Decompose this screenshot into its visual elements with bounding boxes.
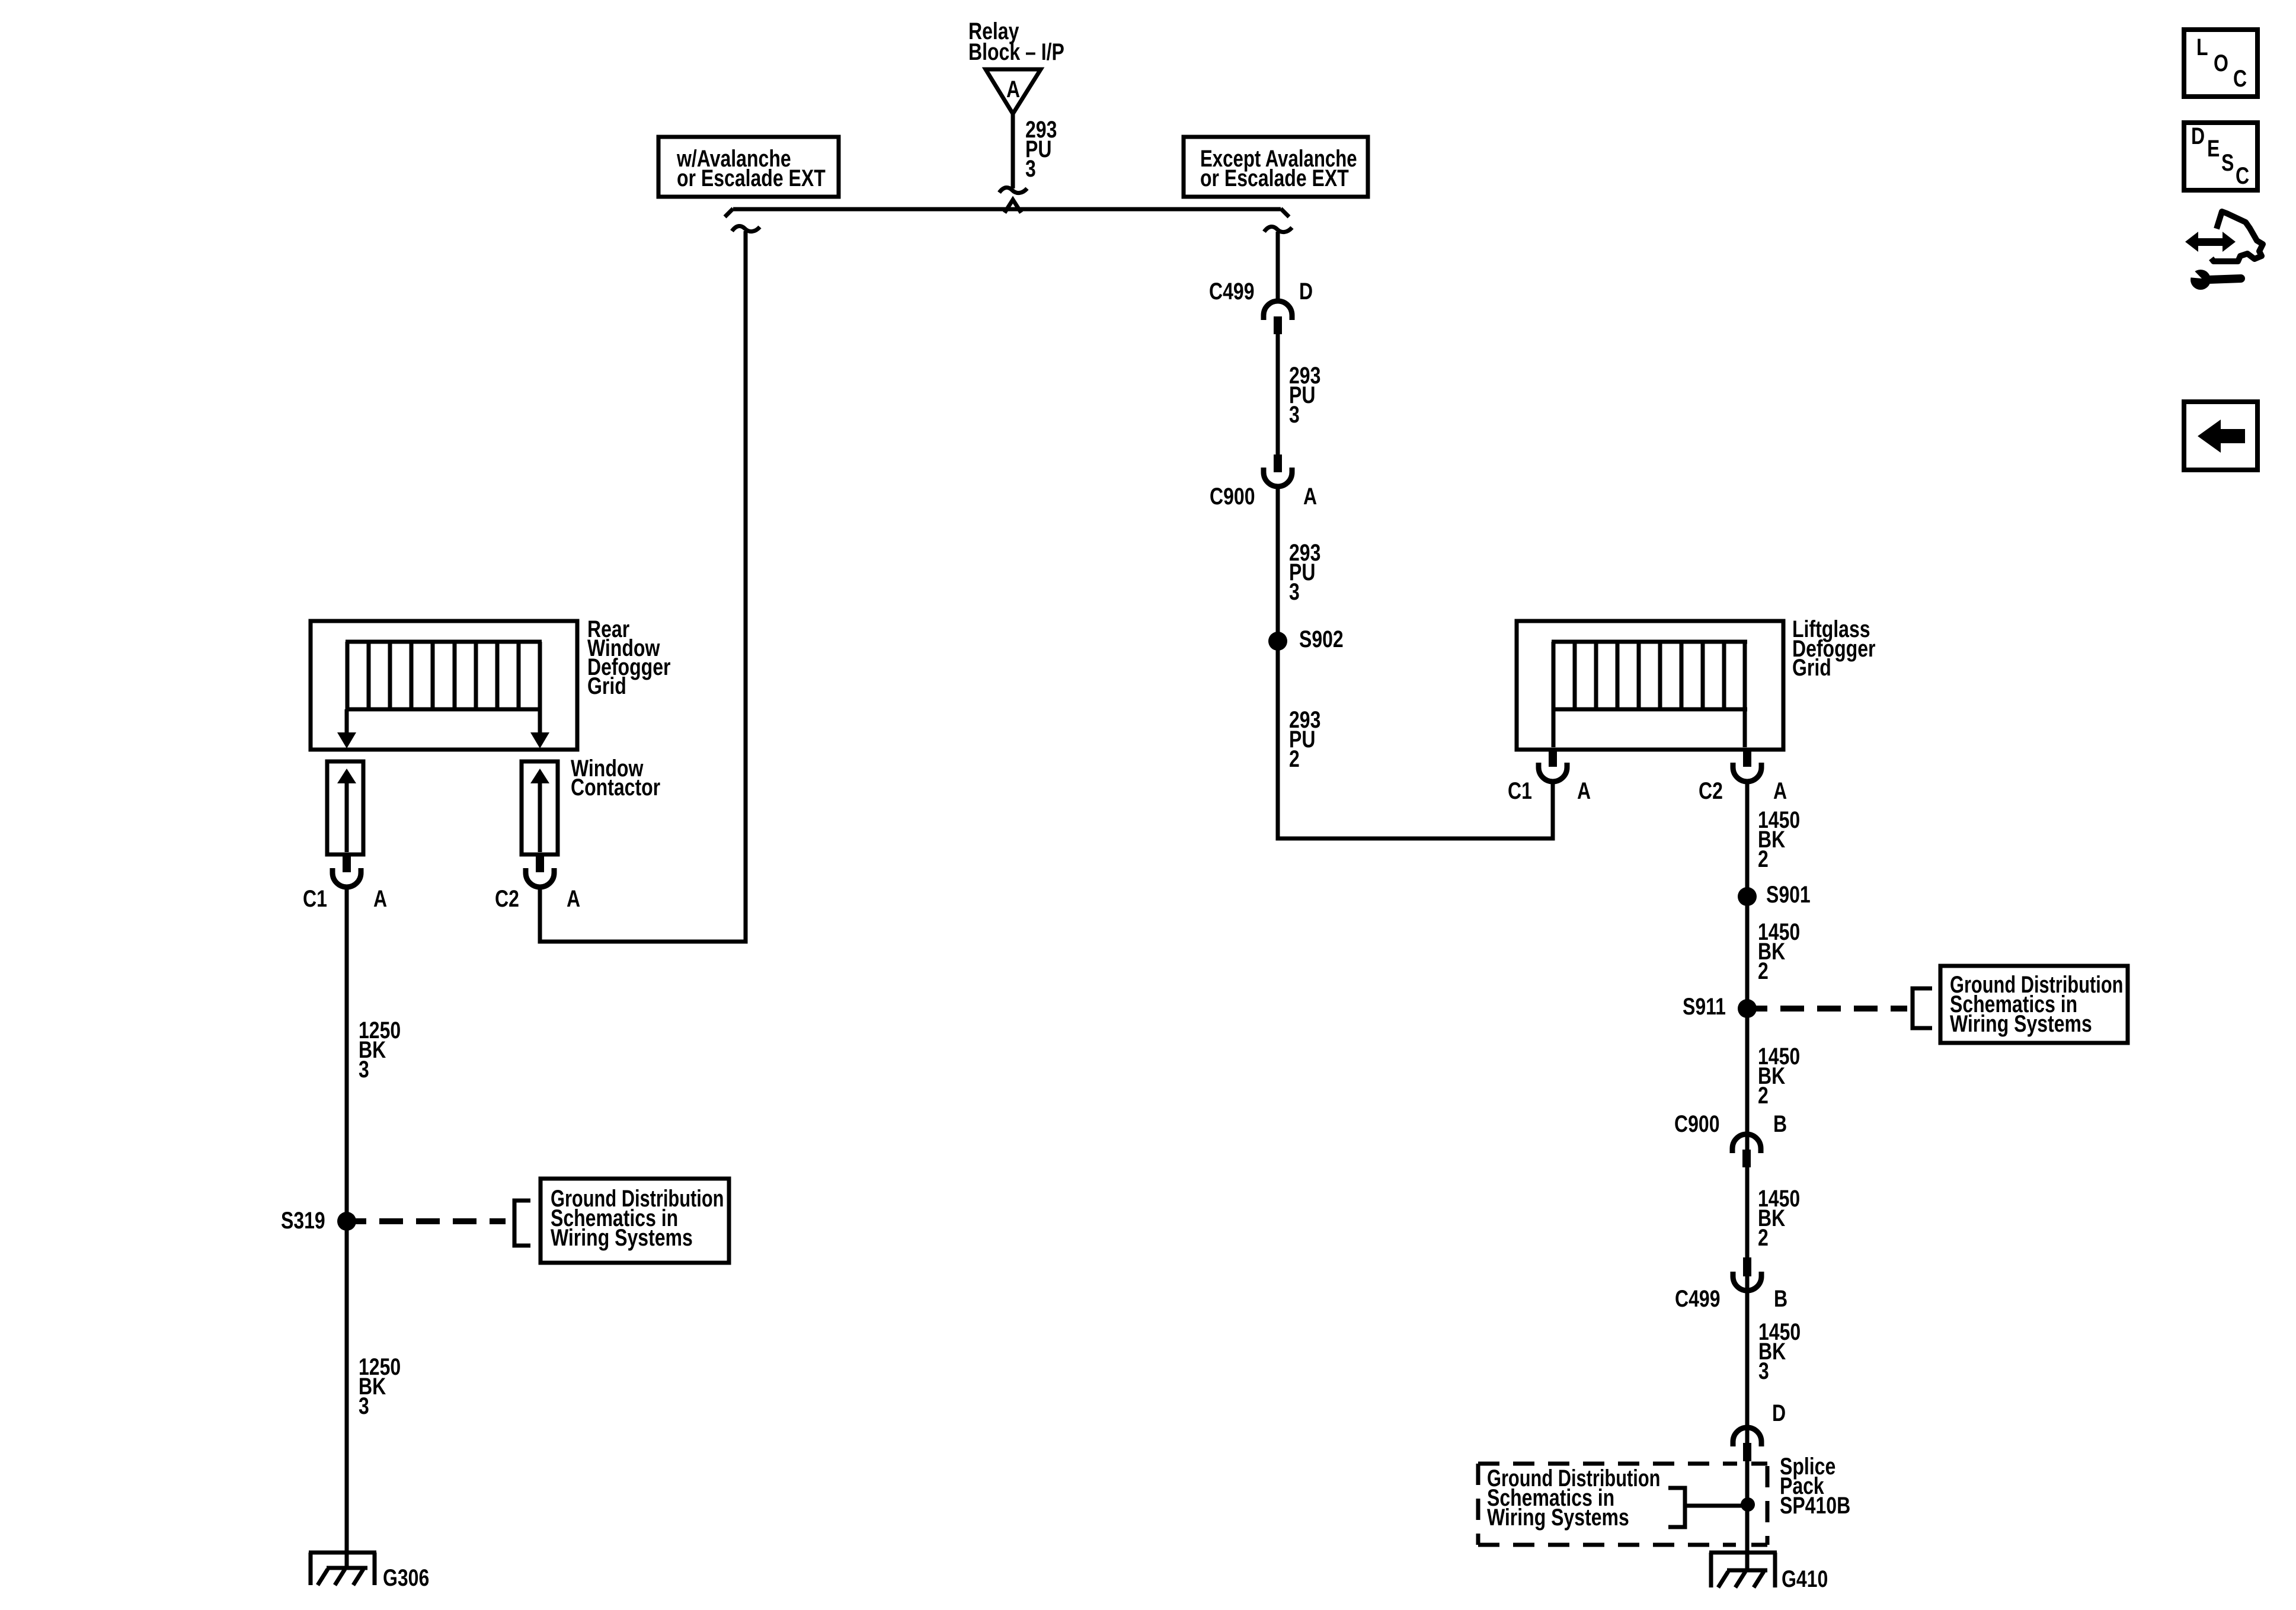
break tilde at relay wire xyxy=(999,187,1027,193)
svg-text:3: 3 xyxy=(1289,578,1300,605)
wire label 1250 BK 3 (upper) xyxy=(359,1017,401,1083)
grid output arrow left xyxy=(337,709,356,748)
svg-text:S319: S319 xyxy=(281,1207,325,1234)
rear window defogger grid box xyxy=(311,621,577,750)
connector C499 D xyxy=(1209,278,1313,334)
connector C1 A (rear grid) xyxy=(303,854,387,912)
splice pack dashed box xyxy=(1478,1464,1767,1545)
wire C900 to liftglass C1 xyxy=(1278,486,1553,838)
bracket to ground distribution box (left) xyxy=(514,1201,530,1246)
ground G306 xyxy=(309,1553,429,1591)
svg-text:or Escalade EXT: or Escalade EXT xyxy=(1200,165,1349,191)
splice S902 xyxy=(1268,626,1344,652)
connector C900 B xyxy=(1674,1110,1787,1167)
svg-text:A: A xyxy=(1303,483,1317,510)
liftglass defogger grid box xyxy=(1517,621,1783,750)
connector repair icon (double arrow) xyxy=(2185,232,2236,252)
splice pack label xyxy=(1780,1453,1850,1519)
connector C2 A (liftglass) xyxy=(1699,748,1787,804)
connector C2 A (rear grid) xyxy=(495,854,580,912)
svg-text:L: L xyxy=(2196,34,2208,60)
wire 293 PU from relay xyxy=(1011,114,1015,188)
rear window defogger grid label xyxy=(587,616,670,699)
splice S911 xyxy=(1683,993,1757,1020)
branch tilde left xyxy=(732,226,760,231)
svg-text:2: 2 xyxy=(1758,846,1769,872)
relay block triangle A xyxy=(986,69,1041,114)
svg-text:S902: S902 xyxy=(1299,626,1344,652)
svg-text:A: A xyxy=(1577,777,1591,804)
svg-text:2: 2 xyxy=(1758,1224,1769,1251)
box w/Avalanche or Escalade EXT xyxy=(658,137,839,197)
connector C900 A xyxy=(1210,454,1317,510)
svg-text:2: 2 xyxy=(1289,745,1300,772)
svg-text:D: D xyxy=(2191,123,2205,149)
wire option bus to C499 D xyxy=(1276,232,1280,301)
svg-text:A: A xyxy=(1773,777,1787,804)
wire label 293 PU 2 xyxy=(1289,706,1320,772)
svg-text:G306: G306 xyxy=(383,1564,429,1591)
svg-text:D: D xyxy=(1299,278,1313,305)
wire label 1450 BK 2 (1) xyxy=(1758,806,1800,872)
svg-text:S: S xyxy=(2221,149,2234,176)
ground distribution text (splice pack) xyxy=(1487,1465,1660,1531)
liftglass grid lower tabs xyxy=(1553,709,1745,747)
rear window defogger grid comb xyxy=(346,642,542,709)
wire label 293 PU 3 (mid1) xyxy=(1289,362,1320,428)
wire C2 to option bus (left branch) xyxy=(540,231,746,942)
wire label 1450 BK 3 xyxy=(1758,1318,1801,1384)
svg-text:S911: S911 xyxy=(1683,993,1726,1020)
svg-text:2: 2 xyxy=(1758,958,1769,984)
svg-text:SP410B: SP410B xyxy=(1780,1492,1850,1519)
window contactor right xyxy=(522,761,558,854)
svg-text:B: B xyxy=(1774,1285,1787,1312)
svg-text:Grid: Grid xyxy=(587,673,626,699)
svg-text:C900: C900 xyxy=(1210,483,1255,510)
wire C499 to C900 xyxy=(1276,334,1280,454)
bracket (splice pack) xyxy=(1668,1488,1685,1527)
svg-text:Block – I/P: Block – I/P xyxy=(968,39,1064,65)
svg-text:3: 3 xyxy=(1025,155,1036,182)
liftglass defogger grid comb xyxy=(1552,642,1747,709)
wire C1 to G306 xyxy=(345,887,349,1568)
option bus wire xyxy=(725,209,1289,217)
LOC icon box xyxy=(2184,30,2257,97)
svg-text:Contactor: Contactor xyxy=(571,774,660,801)
wire bracket to splice dot xyxy=(1685,1504,1745,1508)
splice S901 xyxy=(1738,881,1811,908)
svg-text:E: E xyxy=(2207,135,2220,162)
dashed reference line from S319 xyxy=(354,1218,366,1224)
svg-text:B: B xyxy=(1773,1110,1787,1137)
svg-text:A: A xyxy=(567,885,580,912)
window contactor label xyxy=(571,755,660,801)
wire label 1450 BK 2 (3) xyxy=(1758,1043,1800,1109)
svg-text:Wiring Systems: Wiring Systems xyxy=(1950,1010,2092,1037)
wire label 293 PU 3 (relay) xyxy=(1025,116,1057,182)
connector C499 B xyxy=(1675,1257,1787,1312)
svg-text:C1: C1 xyxy=(303,885,327,912)
svg-text:or Escalade EXT: or Escalade EXT xyxy=(677,165,826,191)
splice S319 xyxy=(281,1207,356,1234)
connector C1 A (liftglass) xyxy=(1508,748,1591,804)
wire label 1250 BK 3 (lower) xyxy=(359,1353,401,1419)
svg-text:C499: C499 xyxy=(1209,278,1255,305)
wire label 293 PU 3 (mid2) xyxy=(1289,539,1320,605)
relay block label xyxy=(968,18,1064,65)
splice pack junction dot xyxy=(1741,1497,1755,1512)
svg-text:C: C xyxy=(2233,65,2247,92)
svg-text:C1: C1 xyxy=(1508,777,1532,804)
svg-text:Wiring Systems: Wiring Systems xyxy=(1487,1504,1629,1531)
wire label 1450 BK 2 (4) xyxy=(1758,1185,1800,1251)
svg-text:2: 2 xyxy=(1758,1082,1769,1109)
wire liftglass C2 down to ground G410 xyxy=(1745,782,1750,1570)
svg-text:Wiring Systems: Wiring Systems xyxy=(551,1224,693,1251)
svg-text:G410: G410 xyxy=(1782,1566,1828,1592)
svg-text:3: 3 xyxy=(359,1056,369,1083)
connector repair icon (wrench) xyxy=(2175,261,2241,290)
svg-text:S901: S901 xyxy=(1766,881,1811,908)
svg-text:C900: C900 xyxy=(1674,1110,1720,1137)
liftglass defogger grid label xyxy=(1792,616,1875,681)
svg-text:C2: C2 xyxy=(1699,777,1723,804)
back arrow icon box xyxy=(2184,402,2257,470)
svg-text:3: 3 xyxy=(1289,401,1300,428)
svg-text:3: 3 xyxy=(1758,1358,1769,1384)
DESC icon box xyxy=(2184,123,2257,190)
svg-text:A: A xyxy=(1006,76,1020,103)
connector repair icon (connector outline) xyxy=(2211,212,2263,261)
svg-text:3: 3 xyxy=(359,1393,369,1419)
connector D (splice pack) xyxy=(1733,1400,1786,1461)
svg-text:D: D xyxy=(1772,1400,1786,1426)
svg-text:A: A xyxy=(373,885,387,912)
ground G410 xyxy=(1709,1553,1828,1592)
svg-text:C499: C499 xyxy=(1675,1285,1721,1312)
ground distribution schematics box (left) xyxy=(541,1179,729,1263)
window contactor left xyxy=(327,761,363,854)
bus junction chevron xyxy=(1005,200,1021,213)
bracket to ground distribution box (right) xyxy=(1913,988,1932,1028)
svg-text:Grid: Grid xyxy=(1792,654,1831,681)
svg-text:C2: C2 xyxy=(495,885,519,912)
grid output arrow right xyxy=(530,709,549,748)
svg-text:C: C xyxy=(2236,162,2249,189)
dashed reference line from S911 xyxy=(1755,1006,1767,1012)
wire label 1450 BK 2 (2) xyxy=(1758,918,1800,984)
box Except Avalanche or Escalade EXT xyxy=(1184,137,1368,197)
branch tilde right xyxy=(1264,226,1292,232)
ground distribution schematics box (right) xyxy=(1940,966,2128,1043)
svg-text:O: O xyxy=(2214,50,2228,76)
